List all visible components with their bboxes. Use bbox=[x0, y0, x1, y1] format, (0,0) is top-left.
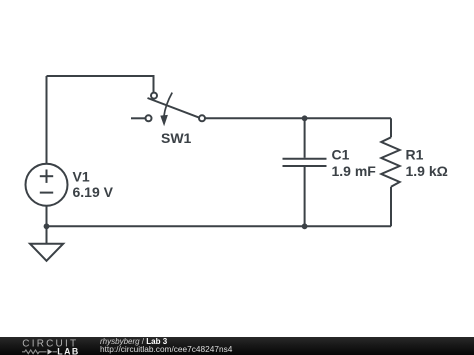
svg-text:C1: C1 bbox=[332, 146, 350, 162]
svg-text:R1: R1 bbox=[406, 146, 424, 162]
wire top rail bbox=[47, 76, 154, 93]
wire switch to right bbox=[206, 117, 392, 119]
node junction C1 top bbox=[302, 115, 308, 121]
svg-text:1.9 mF: 1.9 mF bbox=[332, 163, 377, 179]
footer title bbox=[100, 337, 167, 346]
ground bbox=[30, 244, 63, 261]
capacitor C1 bbox=[283, 118, 327, 226]
voltage source V1 bbox=[26, 164, 68, 206]
resistor R1 bbox=[381, 118, 399, 226]
svg-text:V1: V1 bbox=[73, 168, 90, 184]
switch SW1 bbox=[131, 93, 205, 127]
wire V1 bottom bbox=[46, 206, 48, 244]
svg-text:SW1: SW1 bbox=[161, 130, 192, 146]
svg-text:6.19 V: 6.19 V bbox=[73, 184, 114, 200]
node junction C1 bottom bbox=[302, 223, 308, 229]
svg-text:LAB: LAB bbox=[57, 347, 79, 355]
wire bottom rail bbox=[47, 225, 392, 227]
node junction V1-ground bbox=[44, 223, 50, 229]
footer url bbox=[100, 344, 232, 354]
wire left vertical bbox=[46, 76, 48, 163]
CircuitLab logo bbox=[22, 337, 86, 355]
svg-text:1.9 kΩ: 1.9 kΩ bbox=[406, 163, 448, 179]
